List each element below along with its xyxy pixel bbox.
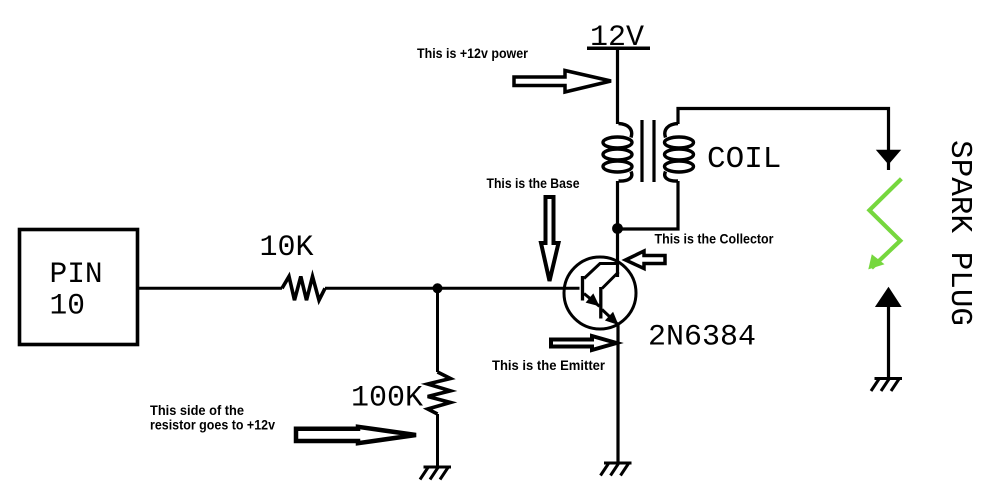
svg-text:10: 10 xyxy=(50,289,85,323)
box PIN 10 xyxy=(20,230,138,345)
node: collector junction xyxy=(612,223,623,234)
svg-text:10K: 10K xyxy=(260,231,314,265)
svg-text:100K: 100K xyxy=(351,382,423,416)
spark gap (green) xyxy=(869,179,901,268)
wire: node to collector xyxy=(616,230,619,277)
svg-text:This is +12v power: This is +12v power xyxy=(417,46,529,61)
ground (emitter) xyxy=(601,463,632,476)
arrow to +12v power xyxy=(514,71,611,93)
wire: emitter to ground xyxy=(616,324,619,463)
coil core xyxy=(640,120,643,182)
transistor base bar Q1a xyxy=(581,276,584,301)
arrow to emitter xyxy=(551,336,617,350)
wire: primary bottom to node xyxy=(616,181,619,230)
wire: secondary top to spark plug xyxy=(678,109,889,151)
transistor Q1b collector stroke xyxy=(602,272,619,289)
svg-text:This is the Base: This is the Base xyxy=(487,176,580,191)
wire: node A to base xyxy=(438,287,580,290)
svg-text:2N6384: 2N6384 xyxy=(648,321,756,355)
power rail bar xyxy=(587,46,650,50)
node A: base junction xyxy=(433,283,443,293)
svg-text:SPARK PLUG: SPARK PLUG xyxy=(942,140,977,326)
ground (R2) xyxy=(420,467,451,480)
wire: 12V rail to coil primary xyxy=(616,48,619,124)
wire: spark plug to ground xyxy=(887,305,890,379)
coil T1 secondary winding xyxy=(665,124,694,182)
spark plug top electrode arrow xyxy=(876,150,901,165)
transistor Q1b emitter stroke with arrow xyxy=(602,310,619,326)
svg-text:This is the Emitter: This is the Emitter xyxy=(492,358,606,373)
wire: node A down to R2 xyxy=(436,288,439,372)
coil T1 primary winding xyxy=(603,124,632,182)
resistor R1 10K xyxy=(282,276,325,300)
svg-text:PIN: PIN xyxy=(50,257,103,291)
wire: R1 to node A xyxy=(325,287,438,290)
svg-text:This side of the: This side of the xyxy=(150,403,244,418)
transistor base bar Q1b xyxy=(599,287,602,319)
transistor Q1a collector stroke xyxy=(584,264,619,279)
arrow to R2 bottom xyxy=(296,427,416,443)
arrow to base xyxy=(541,197,559,281)
svg-text:This is the Collector: This is the Collector xyxy=(655,232,775,247)
wire: R2 to ground xyxy=(436,414,439,467)
spark plug bottom electrode arrow xyxy=(875,287,902,307)
resistor R2 100K xyxy=(428,372,451,414)
ground (spark plug) xyxy=(871,379,902,392)
transistor Q1 2N6384 body xyxy=(564,257,636,329)
arrow to collector xyxy=(626,251,666,269)
svg-text:resistor goes to +12v: resistor goes to +12v xyxy=(150,418,275,433)
svg-text:COIL: COIL xyxy=(707,142,781,177)
wire: secondary bottom to collector node xyxy=(619,181,678,229)
transistor Q1a emitter stroke with arrow xyxy=(584,294,600,307)
wire: pin10 to R1 xyxy=(139,287,282,290)
